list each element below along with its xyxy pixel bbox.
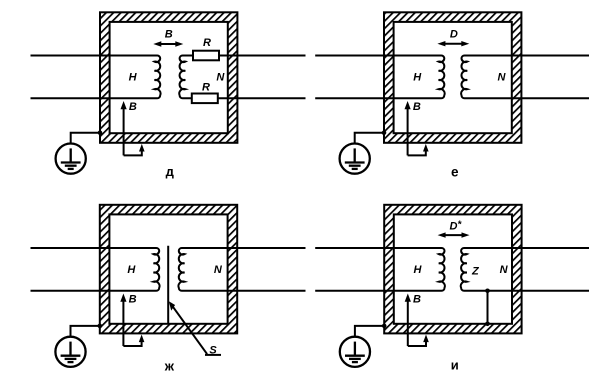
dimension arrow D* between windings <box>445 234 463 236</box>
junction dot on shield wall (ground connection) <box>382 130 387 135</box>
resistor R (bottom) <box>192 94 218 104</box>
svg-text:B: B <box>413 294 421 306</box>
winding N with through wires (fig е) <box>461 56 589 99</box>
grounding conductor to earth electrode <box>71 133 100 144</box>
winding H with feeder wires (fig д) <box>31 56 161 99</box>
dimension arrow B between windings <box>160 43 176 45</box>
junction dot on shield wall <box>485 322 490 327</box>
svg-text:N: N <box>500 264 509 276</box>
winding H with feeder wires (fig е) <box>315 56 444 99</box>
svg-text:S: S <box>209 344 217 356</box>
shield enclosure wall (fig е) <box>384 12 521 143</box>
earth (protective ground) symbol in circle <box>340 144 370 174</box>
winding N with through wires (fig ж) <box>178 248 305 291</box>
grounding conductor to earth electrode <box>355 326 384 337</box>
resistor R (top) <box>193 51 219 61</box>
shield enclosure wall (fig д) <box>100 12 237 143</box>
shield enclosure wall (fig и) <box>384 205 521 334</box>
winding H with feeder wires (fig ж) <box>31 248 160 291</box>
field arrow B (vertical, inside shield) <box>407 300 409 346</box>
earth (protective ground) symbol in circle <box>340 337 370 367</box>
grounding loop below shield with arrow to shield <box>124 151 142 155</box>
svg-text:ж: ж <box>164 358 175 373</box>
shield enclosure wall (fig ж) <box>100 205 237 334</box>
svg-text:R: R <box>202 81 210 93</box>
svg-text:B: B <box>129 294 137 306</box>
earth (protective ground) symbol in circle <box>56 144 86 174</box>
winding H with feeder wires (fig и) <box>315 248 445 291</box>
wire from bottom resistor through shield to right (fig д) <box>218 97 306 99</box>
junction dot on shield wall (ground connection) <box>382 324 387 329</box>
grounding wire from winding Z to shield (fig и) <box>487 291 489 324</box>
wire from top resistor through shield to right (fig д) <box>219 55 306 57</box>
svg-text:B: B <box>165 29 173 41</box>
junction dot on shield wall (ground connection) <box>98 324 103 329</box>
grounding conductor to earth electrode <box>355 133 384 144</box>
winding Z with through wires (fig и) <box>461 248 589 291</box>
svg-text:N: N <box>216 71 225 83</box>
svg-text:и: и <box>451 357 459 372</box>
field arrow B (vertical, inside shield) <box>122 300 124 346</box>
svg-text:N: N <box>214 264 223 276</box>
svg-text:Z: Z <box>471 265 480 277</box>
junction dot on shield wall (ground connection) <box>98 130 103 135</box>
svg-text:N: N <box>498 71 507 83</box>
svg-text:R: R <box>203 37 211 49</box>
earth (protective ground) symbol in circle <box>55 337 85 367</box>
svg-text:H: H <box>127 264 136 276</box>
svg-text:H: H <box>129 71 138 83</box>
grounding conductor to earth electrode <box>71 326 100 337</box>
svg-text:H: H <box>413 71 422 83</box>
junction dot on wire <box>485 289 490 294</box>
dimension arrow D between windings <box>444 43 462 45</box>
svg-text:д: д <box>166 164 175 179</box>
field arrow B (vertical, inside shield) <box>407 107 409 155</box>
screen partition S between windings <box>167 246 169 324</box>
grounding loop below shield with arrow to shield <box>408 342 426 346</box>
svg-text:е: е <box>451 165 459 180</box>
svg-text:B: B <box>129 101 137 113</box>
grounding loop below shield with arrow to shield <box>123 342 141 346</box>
field arrow B (vertical, inside shield) <box>123 107 125 155</box>
winding N (fig д) <box>179 56 193 99</box>
svg-text:B: B <box>413 101 421 113</box>
leader line to S label <box>170 303 207 354</box>
grounding loop below shield with arrow to shield <box>408 151 426 155</box>
svg-text:D: D <box>450 29 458 41</box>
svg-text:H: H <box>414 264 423 276</box>
